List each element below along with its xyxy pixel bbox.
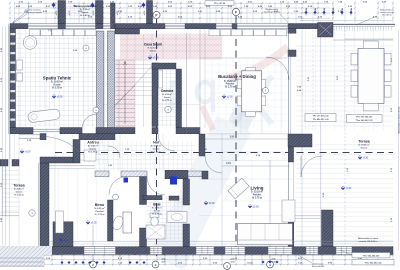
svg-text:Gresie: Gresie	[361, 148, 369, 150]
svg-text:±0.00: ±0.00	[93, 11, 95, 16]
stair north wall piece	[115, 29, 140, 35]
svg-text:±0.00: ±0.00	[227, 97, 233, 99]
ST boiler circle	[23, 36, 37, 50]
wall right of camara door	[176, 128, 200, 134]
svg-text:Gresie: Gresie	[53, 85, 61, 87]
svg-text:H: 2.75 m: H: 2.75 m	[95, 214, 105, 216]
section bubble bottom x156	[152, 261, 159, 268]
terasa SE column	[322, 210, 334, 247]
elevation mark left porch	[20, 150, 24, 152]
ST east chimney column 1	[97, 31, 104, 128]
wall camara south piece	[152, 128, 158, 134]
floor grid camara	[158, 69, 176, 126]
svg-text:TPe 963.25/-1.30: TPe 963.25/-1.30	[312, 119, 329, 121]
svg-text:H: 2.75 m: H: 2.75 m	[162, 100, 171, 102]
svg-text:-0.30: -0.30	[346, 188, 352, 190]
counter row bucatarie	[209, 30, 287, 36]
floor grid spatiu tehnic	[16, 29, 96, 127]
entrance porch lines	[19, 134, 46, 136]
left terasa south edge	[0, 215, 19, 217]
steps bottom left	[0, 257, 44, 259]
entrance north wall piece	[40, 134, 46, 140]
baie shower tray	[146, 225, 165, 239]
svg-text:Spatiu Tehnic: Spatiu Tehnic	[43, 76, 72, 81]
svg-text:S: 5.50 m²: S: 5.50 m²	[88, 145, 99, 148]
camara door arc	[158, 134, 175, 151]
section line vertical x157	[156, 19, 158, 259]
hol-baie dark block	[165, 170, 188, 179]
blue mark birou bottom left	[59, 238, 62, 241]
door arc hol-baie	[147, 177, 165, 195]
svg-text:TPe +97.90/-0.35: TPe +97.90/-0.35	[312, 116, 329, 118]
baie east wall	[183, 179, 190, 205]
svg-text:H: 2.75 m: H: 2.75 m	[252, 198, 262, 200]
ST door arc	[82, 114, 96, 129]
bucatarie east wall lines	[287, 29, 289, 134]
terasa chairs right	[384, 53, 391, 65]
section line horizontal	[55, 152, 393, 154]
svg-text:S: 3.97 m²: S: 3.97 m²	[152, 207, 163, 210]
bucatarie west counter lines	[199, 29, 201, 134]
bottom exterior wall	[52, 247, 393, 255]
svg-text:Terasa: Terasa	[358, 140, 370, 144]
svg-text:Bucatarie + Dining: Bucatarie + Dining	[218, 74, 256, 79]
baie toilet	[150, 213, 159, 218]
svg-text:TTev 963.09/-1.35: TTev 963.09/-1.35	[365, 262, 383, 264]
birou north edge lines	[49, 165, 95, 167]
terasa right elevation	[341, 186, 345, 188]
ST east chimney column 2	[108, 31, 115, 128]
top dim ticks	[9, 2, 11, 4]
hol south wall east piece	[188, 171, 202, 177]
birou desk east	[123, 212, 132, 233]
jog wall antreu-birou	[40, 157, 73, 163]
svg-text:Gresie: Gresie	[164, 96, 171, 99]
svg-text:Terasa: Terasa	[13, 184, 25, 188]
left terasa west edge lines	[1, 160, 3, 217]
svg-text:Gresie: Gresie	[153, 149, 161, 151]
svg-text:H: 2.75 m: H: 2.75 m	[152, 214, 162, 216]
hol-living wall	[199, 134, 205, 156]
svg-text:-0.30: -0.30	[363, 158, 369, 160]
left dimension band lines	[1, 26, 3, 250]
watermark red swoosh	[228, 47, 288, 78]
stair treads	[116, 59, 136, 61]
svg-text:S: 8.30 m²: S: 8.30 m²	[94, 207, 105, 210]
extra extension lines through plan	[45, 23, 47, 139]
terasa chairs left	[351, 53, 358, 65]
svg-text:Gresie: Gresie	[82, 12, 90, 14]
living east wall lower	[288, 215, 294, 247]
floor grid hol	[95, 141, 195, 171]
top exterior wall segments	[10, 24, 28, 29]
right dimension band	[397, 30, 399, 250]
ST tank	[27, 109, 60, 123]
terrace stub walls above top wall	[58, 1, 66, 24]
svg-text:TTev 963.09/-1.35: TTev 963.09/-1.35	[356, 120, 374, 122]
marker circle left bottom	[29, 210, 35, 216]
floor grid antreu	[80, 141, 108, 164]
svg-text:S: 5.94 m²: S: 5.94 m²	[151, 145, 162, 148]
bottom dimension lines	[14, 255, 393, 257]
svg-text:±0.00: ±0.00	[153, 58, 159, 60]
blue diamonds top right	[304, 11, 307, 14]
svg-text:Living: Living	[251, 186, 264, 191]
svg-text:H= 0.90 m: H= 0.90 m	[382, 14, 392, 16]
svg-text:Gresie: Gresie	[154, 211, 162, 213]
svg-text:S: 18.56 m²: S: 18.56 m²	[358, 144, 370, 147]
door arc hol-living	[205, 156, 222, 173]
section line vertical x236	[235, 16, 237, 259]
terasa low wall lines bottom right	[294, 215, 322, 217]
door arc bucatarie-terasa	[266, 57, 289, 80]
blue arrows bottom right-mid	[262, 261, 265, 264]
section bubble top x236	[232, 8, 239, 15]
svg-text:±0.00: ±0.00	[117, 11, 119, 16]
living coffee table rotated	[228, 178, 249, 199]
svg-text:±0.00: ±0.00	[56, 11, 58, 16]
circled 14 camara	[165, 106, 171, 112]
kitchen chairs	[237, 79, 241, 89]
camara north wall	[152, 63, 176, 69]
svg-text:exterior pe fatade: exterior pe fatade	[24, 11, 42, 14]
left terasa north wall	[0, 160, 8, 167]
blue arrows bottom center	[61, 261, 64, 264]
living side table	[282, 200, 295, 222]
ST equipment rects	[17, 60, 23, 70]
stair diagonal break	[115, 85, 135, 105]
section bubble bottom x227	[224, 263, 231, 270]
svg-text:±0.00: ±0.00	[64, 240, 69, 242]
landing lines in pink band	[126, 34, 128, 59]
svg-text:Hol: Hol	[153, 141, 159, 145]
bubble on ST wall upper	[83, 45, 89, 51]
door arc hol-birou	[109, 177, 127, 195]
svg-text:lamela pt antifoc: lamela pt antifoc	[264, 11, 281, 14]
stair treads second flight	[135, 59, 152, 61]
svg-text:H: 2.63 m: H: 2.63 m	[80, 15, 90, 17]
ground hatch bottom left	[0, 246, 52, 267]
spatiu tehnic south wall mid	[60, 128, 82, 134]
terasa chair top	[363, 41, 378, 48]
living floor faint lines	[222, 200, 288, 202]
svg-text:S: 4.40 m²: S: 4.40 m²	[14, 188, 25, 191]
door arc antreu-hol open	[108, 146, 120, 158]
svg-text:Parchet: Parchet	[95, 210, 103, 213]
entrance door arc	[46, 137, 79, 153]
windows bottom wall	[84, 247, 116, 255]
blue compass marks top left	[51, 3, 55, 7]
floor grid terasa right top	[296, 46, 393, 126]
svg-text:+0.07: +0.07	[25, 152, 32, 154]
left wall extension below	[9, 134, 11, 160]
top dimension lines	[14, 2, 330, 4]
svg-text:Birou: Birou	[95, 203, 104, 207]
pier mid east	[288, 134, 312, 147]
svg-text:H: 2.75 m: H: 2.75 m	[52, 88, 62, 90]
floor grid baie	[147, 195, 183, 240]
pink hatch stair band	[120, 34, 222, 60]
birou west wall	[40, 163, 49, 247]
svg-text:Baie: Baie	[153, 203, 161, 207]
antreu west wall	[73, 140, 80, 164]
camara west wall	[152, 63, 158, 127]
stair arrow	[124, 62, 126, 124]
terasa dining table	[358, 48, 384, 103]
spatiu tehnic south wall west	[10, 128, 33, 134]
kitchen counter row top left	[30, 30, 97, 36]
svg-text:Parchet: Parchet	[253, 194, 262, 197]
bucatarie east wall upper pier	[288, 29, 296, 34]
svg-text:terasa H=0.90: terasa H=0.90	[312, 265, 324, 268]
balusters top right	[334, 27, 391, 31]
living sofa	[238, 224, 293, 245]
svg-text:TPe +97.90: TPe +97.90	[214, 3, 226, 5]
birou chair	[111, 215, 125, 232]
door jamb birou door	[121, 171, 147, 177]
interior floor edge above bottom wall	[50, 240, 393, 242]
floor lines terasa right bottom	[296, 145, 393, 241]
vertical ref lines interior	[18, 23, 20, 252]
svg-text:H: 2.75 m: H: 2.75 m	[88, 152, 98, 154]
bubble on ST wall lower	[93, 107, 99, 113]
svg-text:±0.00: ±0.00	[144, 11, 146, 16]
camara east wall	[176, 69, 182, 128]
baie sink counter	[167, 212, 187, 223]
svg-text:±0.00: ±0.00	[253, 206, 259, 208]
top-right column	[318, 23, 334, 38]
svg-text:Gresie: Gresie	[90, 149, 98, 151]
boxed label left of table	[305, 114, 336, 122]
watermark remax blue letters	[172, 76, 272, 124]
svg-text:TTer 962.203.010: TTer 962.203.010	[363, 254, 380, 257]
watermark X letter	[234, 76, 272, 124]
svg-text:S: 2.19 m²: S: 2.19 m²	[80, 8, 91, 11]
svg-text:2.10: 2.10	[226, 162, 231, 165]
camara shelf	[159, 70, 163, 88]
section bubble top x157	[153, 11, 160, 18]
svg-text:±0.00: ±0.00	[91, 223, 97, 225]
terasa chair bottom	[363, 103, 378, 111]
birou cabinet west	[56, 211, 64, 233]
svg-text:Balustrada cu mana: Balustrada cu mana	[358, 237, 379, 240]
circled 6 marker	[263, 88, 269, 94]
svg-text:H: 2.75 m: H: 2.75 m	[14, 195, 24, 197]
svg-text:3.90: 3.90	[230, 137, 235, 139]
svg-text:Camara: Camara	[161, 89, 174, 93]
door arc living-terasa	[301, 156, 322, 177]
floor grid terasa top small	[66, 2, 95, 23]
living east wall upper	[288, 147, 294, 162]
left exterior wall insulated	[10, 29, 16, 128]
blue arrow bottom near baie	[129, 261, 132, 264]
svg-text:TTer 967.203.010: TTer 967.203.010	[356, 116, 373, 119]
blue electric panel	[170, 177, 177, 185]
svg-text:Casa Scarii: Casa Scarii	[144, 43, 162, 47]
boxed label top center	[205, 1, 234, 6]
svg-text:S: 12.10 m²: S: 12.10 m²	[148, 47, 159, 50]
thin line under bucatarie	[205, 133, 288, 135]
watermark slash band	[177, 100, 250, 256]
svg-text:Gresie: Gresie	[16, 192, 24, 194]
top extension lines	[9, 2, 11, 24]
stair side line	[118, 60, 120, 127]
svg-text:H: 2.75 m: H: 2.75 m	[151, 152, 161, 154]
birou floor lines	[59, 168, 107, 240]
bubble above wardrobe column	[113, 194, 119, 200]
interior dim bucatarie	[199, 138, 290, 140]
antreu north wall	[79, 134, 115, 140]
baie partition walls	[143, 196, 162, 200]
boxed label terasa table	[347, 115, 383, 123]
birou wardrobe column	[108, 200, 114, 241]
svg-text:Parchet: Parchet	[226, 83, 235, 86]
bucatarie floor lines	[205, 58, 288, 128]
svg-text:±0.00: ±0.00	[209, 203, 215, 205]
interior dim terasa right	[345, 38, 393, 40]
top wall windows	[28, 24, 58, 29]
wall under stair	[96, 128, 135, 134]
kitchen dining table	[242, 71, 262, 112]
svg-text:Gresie: Gresie	[150, 50, 157, 53]
svg-text:Antreu: Antreu	[87, 141, 99, 145]
svg-text:S: 3.74 m²: S: 3.74 m²	[162, 93, 172, 96]
hol south wall light band	[95, 171, 109, 177]
section bubble bottom x93	[90, 261, 97, 268]
window in ST south wall	[33, 128, 60, 130]
bottom-left pillar	[53, 222, 73, 247]
section bubble bottom x270	[267, 261, 274, 268]
boxed labels bottom right	[352, 253, 390, 258]
svg-text:H: 2.75 m: H: 2.75 m	[225, 87, 235, 89]
top terrace edge line right	[333, 23, 395, 25]
svg-text:±0.00: ±0.00	[57, 97, 63, 99]
horizontal ref line kitchen	[200, 57, 288, 59]
svg-text:10.90: 10.90	[247, 263, 253, 265]
birou-baie wall	[140, 177, 147, 205]
pink hatch stair column	[115, 60, 135, 128]
antreu shoe cabinet	[84, 150, 96, 161]
floor lines terasa left	[2, 171, 19, 212]
svg-text:±0.00: ±0.00	[69, 11, 71, 16]
leader note bottom right-center	[298, 255, 312, 263]
svg-text:curenta, HH 0.90 m: curenta, HH 0.90 m	[359, 240, 378, 243]
